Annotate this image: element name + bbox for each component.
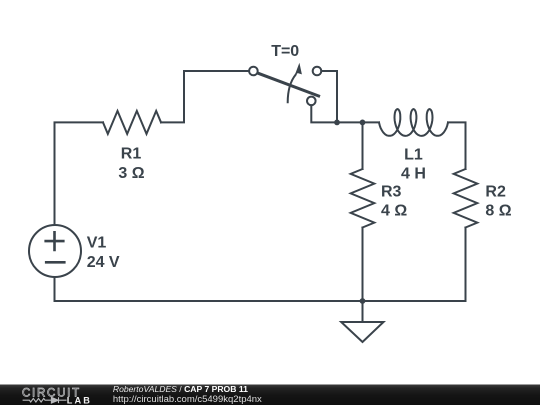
inductor L1 coil — [379, 109, 448, 136]
wire from lower throw down then right to node — [311, 105, 337, 122]
svg-text:R1: R1 — [121, 146, 142, 163]
svg-text:24 V: 24 V — [87, 254, 120, 271]
wire junction to inductor start — [363, 121, 380, 123]
svg-text:R3: R3 — [381, 183, 402, 200]
V1 plus sign — [46, 232, 64, 250]
wire node to R3/L1 junction — [337, 121, 363, 123]
switch SW1 lever — [258, 73, 319, 96]
wire R3 top from junction — [362, 122, 364, 169]
wire from upper throw right then down to node — [321, 71, 337, 122]
wire inductor to top-right corner down to R2 — [448, 122, 466, 169]
switch SW1 lower throw terminal circle — [307, 97, 316, 106]
wire R1 right to riser up to top rail — [161, 71, 249, 122]
switch SW1 pole terminal circle — [249, 67, 258, 76]
svg-text:V1: V1 — [87, 234, 107, 251]
node junction dot C (ground node) — [360, 298, 366, 304]
wire left vertical top (V1 top to top-left corner) — [55, 122, 104, 225]
wire R2 bottom down to bottom rail — [363, 228, 466, 302]
resistor R1 — [103, 111, 161, 134]
svg-text:RobertoVALDES / CAP 7 PROB 11: RobertoVALDES / CAP 7 PROB 11 — [113, 384, 248, 394]
svg-text:8 Ω: 8 Ω — [485, 203, 511, 220]
switch SW1 actuation arrow — [288, 75, 296, 102]
svg-text:T=0: T=0 — [271, 43, 299, 60]
switch SW1 arrowhead — [295, 63, 302, 76]
svg-text:L1: L1 — [404, 146, 423, 163]
svg-text:LAB: LAB — [67, 395, 92, 405]
wire R3 bottom to rail — [362, 228, 364, 302]
svg-text:4 Ω: 4 Ω — [381, 203, 407, 220]
resistor R3 — [351, 169, 375, 228]
V1 minus sign — [46, 261, 64, 264]
svg-text:4 H: 4 H — [401, 166, 426, 183]
CircuitLab logo wire with resistor — [23, 398, 52, 402]
ground symbol — [341, 301, 383, 342]
voltage source V1 circle — [29, 225, 81, 277]
svg-text:R2: R2 — [485, 183, 506, 200]
resistor R2 — [454, 169, 478, 228]
svg-text:http://circuitlab.com/c5499kq2: http://circuitlab.com/c5499kq2tp4nx — [113, 394, 262, 405]
node junction dot A (switch to L1) — [334, 120, 340, 126]
CircuitLab logo diode — [51, 397, 66, 403]
switch SW1 upper throw terminal circle — [313, 67, 322, 76]
node junction dot B (R3/L1) — [360, 120, 366, 126]
wire bottom rail left to V1 — [55, 277, 363, 301]
svg-text:3 Ω: 3 Ω — [118, 165, 144, 182]
